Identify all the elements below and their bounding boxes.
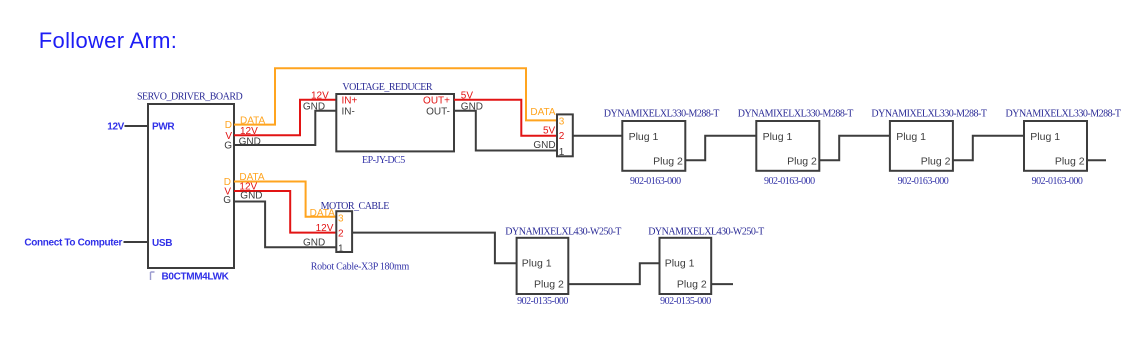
svg-text:902-0163-000: 902-0163-000 [1032,176,1083,187]
svg-text:USB: USB [152,238,172,249]
svg-text:GND: GND [239,137,261,148]
svg-text:12V: 12V [311,90,329,101]
wire stub M4 Plug 2 [1087,159,1106,161]
svg-text:Plug 1: Plug 1 [763,131,793,143]
component M1 DYNAMIXELXL330-M288-T body [622,121,685,171]
svg-text:EP-JY-DC5: EP-JY-DC5 [362,155,405,166]
wire GND net reducer OUT- to connector J1 pin1 [454,111,557,151]
svg-text:DYNAMIXELXL430-W250-T: DYNAMIXELXL430-W250-T [505,226,621,237]
wire 12V input to PWR [125,125,149,127]
svg-text:902-0135-000: 902-0135-000 [517,296,568,307]
svg-text:Plug 1: Plug 1 [896,131,926,143]
wire 12V net servo V to reducer IN+ [234,100,336,136]
svg-text:G: G [223,195,231,206]
component M4 DYNAMIXELXL330-M288-T body [1024,121,1087,171]
svg-text:3: 3 [338,214,344,225]
svg-text:OUT+: OUT+ [423,96,450,107]
svg-text:D: D [225,120,232,131]
connector J1 body [557,114,573,156]
svg-text:Plug 1: Plug 1 [1030,131,1060,143]
svg-text:DYNAMIXELXL330-M288-T: DYNAMIXELXL330-M288-T [871,109,986,120]
wire J1 pin2 to M1 Plug 1 [573,135,623,137]
svg-text:Plug 2: Plug 2 [921,156,951,168]
component M2 DYNAMIXELXL330-M288-T body [756,121,819,171]
svg-text:Plug 2: Plug 2 [1055,156,1085,168]
svg-text:DYNAMIXELXL330-M288-T: DYNAMIXELXL330-M288-T [1006,109,1121,120]
svg-text:902-0163-000: 902-0163-000 [764,176,815,187]
wire DATA net (servo D top to connector J1 pin3) [234,68,557,124]
svg-text:IN-: IN- [342,107,355,118]
svg-text:PWR: PWR [152,122,175,133]
svg-text:GND: GND [240,191,262,202]
svg-text:1: 1 [338,243,344,254]
svg-text:G: G [224,141,232,152]
svg-text:DATA: DATA [240,115,266,126]
component U1 SERVO_DRIVER_BOARD body [148,104,234,268]
svg-text:902-0135-000: 902-0135-000 [660,296,711,307]
component U2 VOLTAGE_REDUCER body [336,94,454,151]
wire M1 Plug 2 to M2 Plug 1 [685,136,756,161]
svg-text:12V: 12V [316,223,334,234]
svg-text:VOLTAGE_REDUCER: VOLTAGE_REDUCER [342,82,432,93]
svg-text:OUT-: OUT- [426,107,450,118]
svg-text:Plug 1: Plug 1 [665,258,695,270]
wire GND net servo G to reducer IN- [234,111,336,145]
svg-text:DYNAMIXELXL330-M288-T: DYNAMIXELXL330-M288-T [738,109,853,120]
component M6 DYNAMIXELXL430-W250-T body [660,238,712,294]
svg-text:2: 2 [338,229,344,240]
svg-text:B0CTMM4LWK: B0CTMM4LWK [162,272,230,283]
component M3 DYNAMIXELXL330-M288-T body [890,121,953,171]
wire computer to USB [124,241,149,243]
svg-text:GND: GND [461,102,483,113]
svg-text:Plug 2: Plug 2 [787,156,817,168]
svg-text:Plug 2: Plug 2 [677,279,707,291]
svg-text:GND: GND [303,238,325,249]
svg-text:3: 3 [559,117,565,128]
svg-text:Robot Cable-X3P 180mm: Robot Cable-X3P 180mm [311,262,410,273]
svg-text:902-0163-000: 902-0163-000 [630,176,681,187]
wire 5V net reducer OUT+ to connector J1 pin2 [454,100,557,136]
wire 12V net servo V bottom to J2 pin2 [234,191,336,233]
svg-text:GND: GND [533,140,555,151]
svg-text:Plug 2: Plug 2 [534,279,564,291]
svg-text:Plug 2: Plug 2 [653,156,683,168]
wire J2 pin2 to M5 Plug 1 [352,233,516,264]
svg-text:IN+: IN+ [342,96,358,107]
connector J2 MOTOR_CABLE body [336,211,352,252]
svg-text:MOTOR_CABLE: MOTOR_CABLE [321,201,390,212]
svg-text:DYNAMIXELXL330-M288-T: DYNAMIXELXL330-M288-T [604,109,719,120]
svg-text:Plug 1: Plug 1 [522,258,552,270]
wire DATA net servo D bottom to J2 pin3 [234,182,336,217]
svg-text:SERVO_DRIVER_BOARD: SERVO_DRIVER_BOARD [137,91,242,102]
wire M5 Plug 2 to M6 Plug 1 [568,263,659,284]
svg-text:Follower Arm:: Follower Arm: [39,28,177,53]
wire M3 Plug 2 to M4 Plug 1 [953,136,1024,161]
svg-text:5V: 5V [461,90,474,101]
wire M2 Plug 2 to M3 Plug 1 [819,136,890,161]
component M5 DYNAMIXELXL430-W250-T body [517,238,569,294]
svg-text:DATA: DATA [530,107,556,118]
svg-text:2: 2 [559,131,565,142]
wire GND net servo G bottom to J2 pin1 [234,202,336,248]
svg-text:Plug 1: Plug 1 [629,131,659,143]
svg-text:GND: GND [303,102,325,113]
svg-text:5V: 5V [543,125,556,136]
svg-text:DYNAMIXELXL430-W250-T: DYNAMIXELXL430-W250-T [648,226,764,237]
svg-text:902-0163-000: 902-0163-000 [898,176,949,187]
footprint icon [151,272,155,280]
wire stub M6 Plug 2 [711,283,733,285]
svg-text:1: 1 [559,147,565,158]
svg-text:12V: 12V [107,121,124,132]
svg-text:Connect To Computer: Connect To Computer [24,237,122,248]
